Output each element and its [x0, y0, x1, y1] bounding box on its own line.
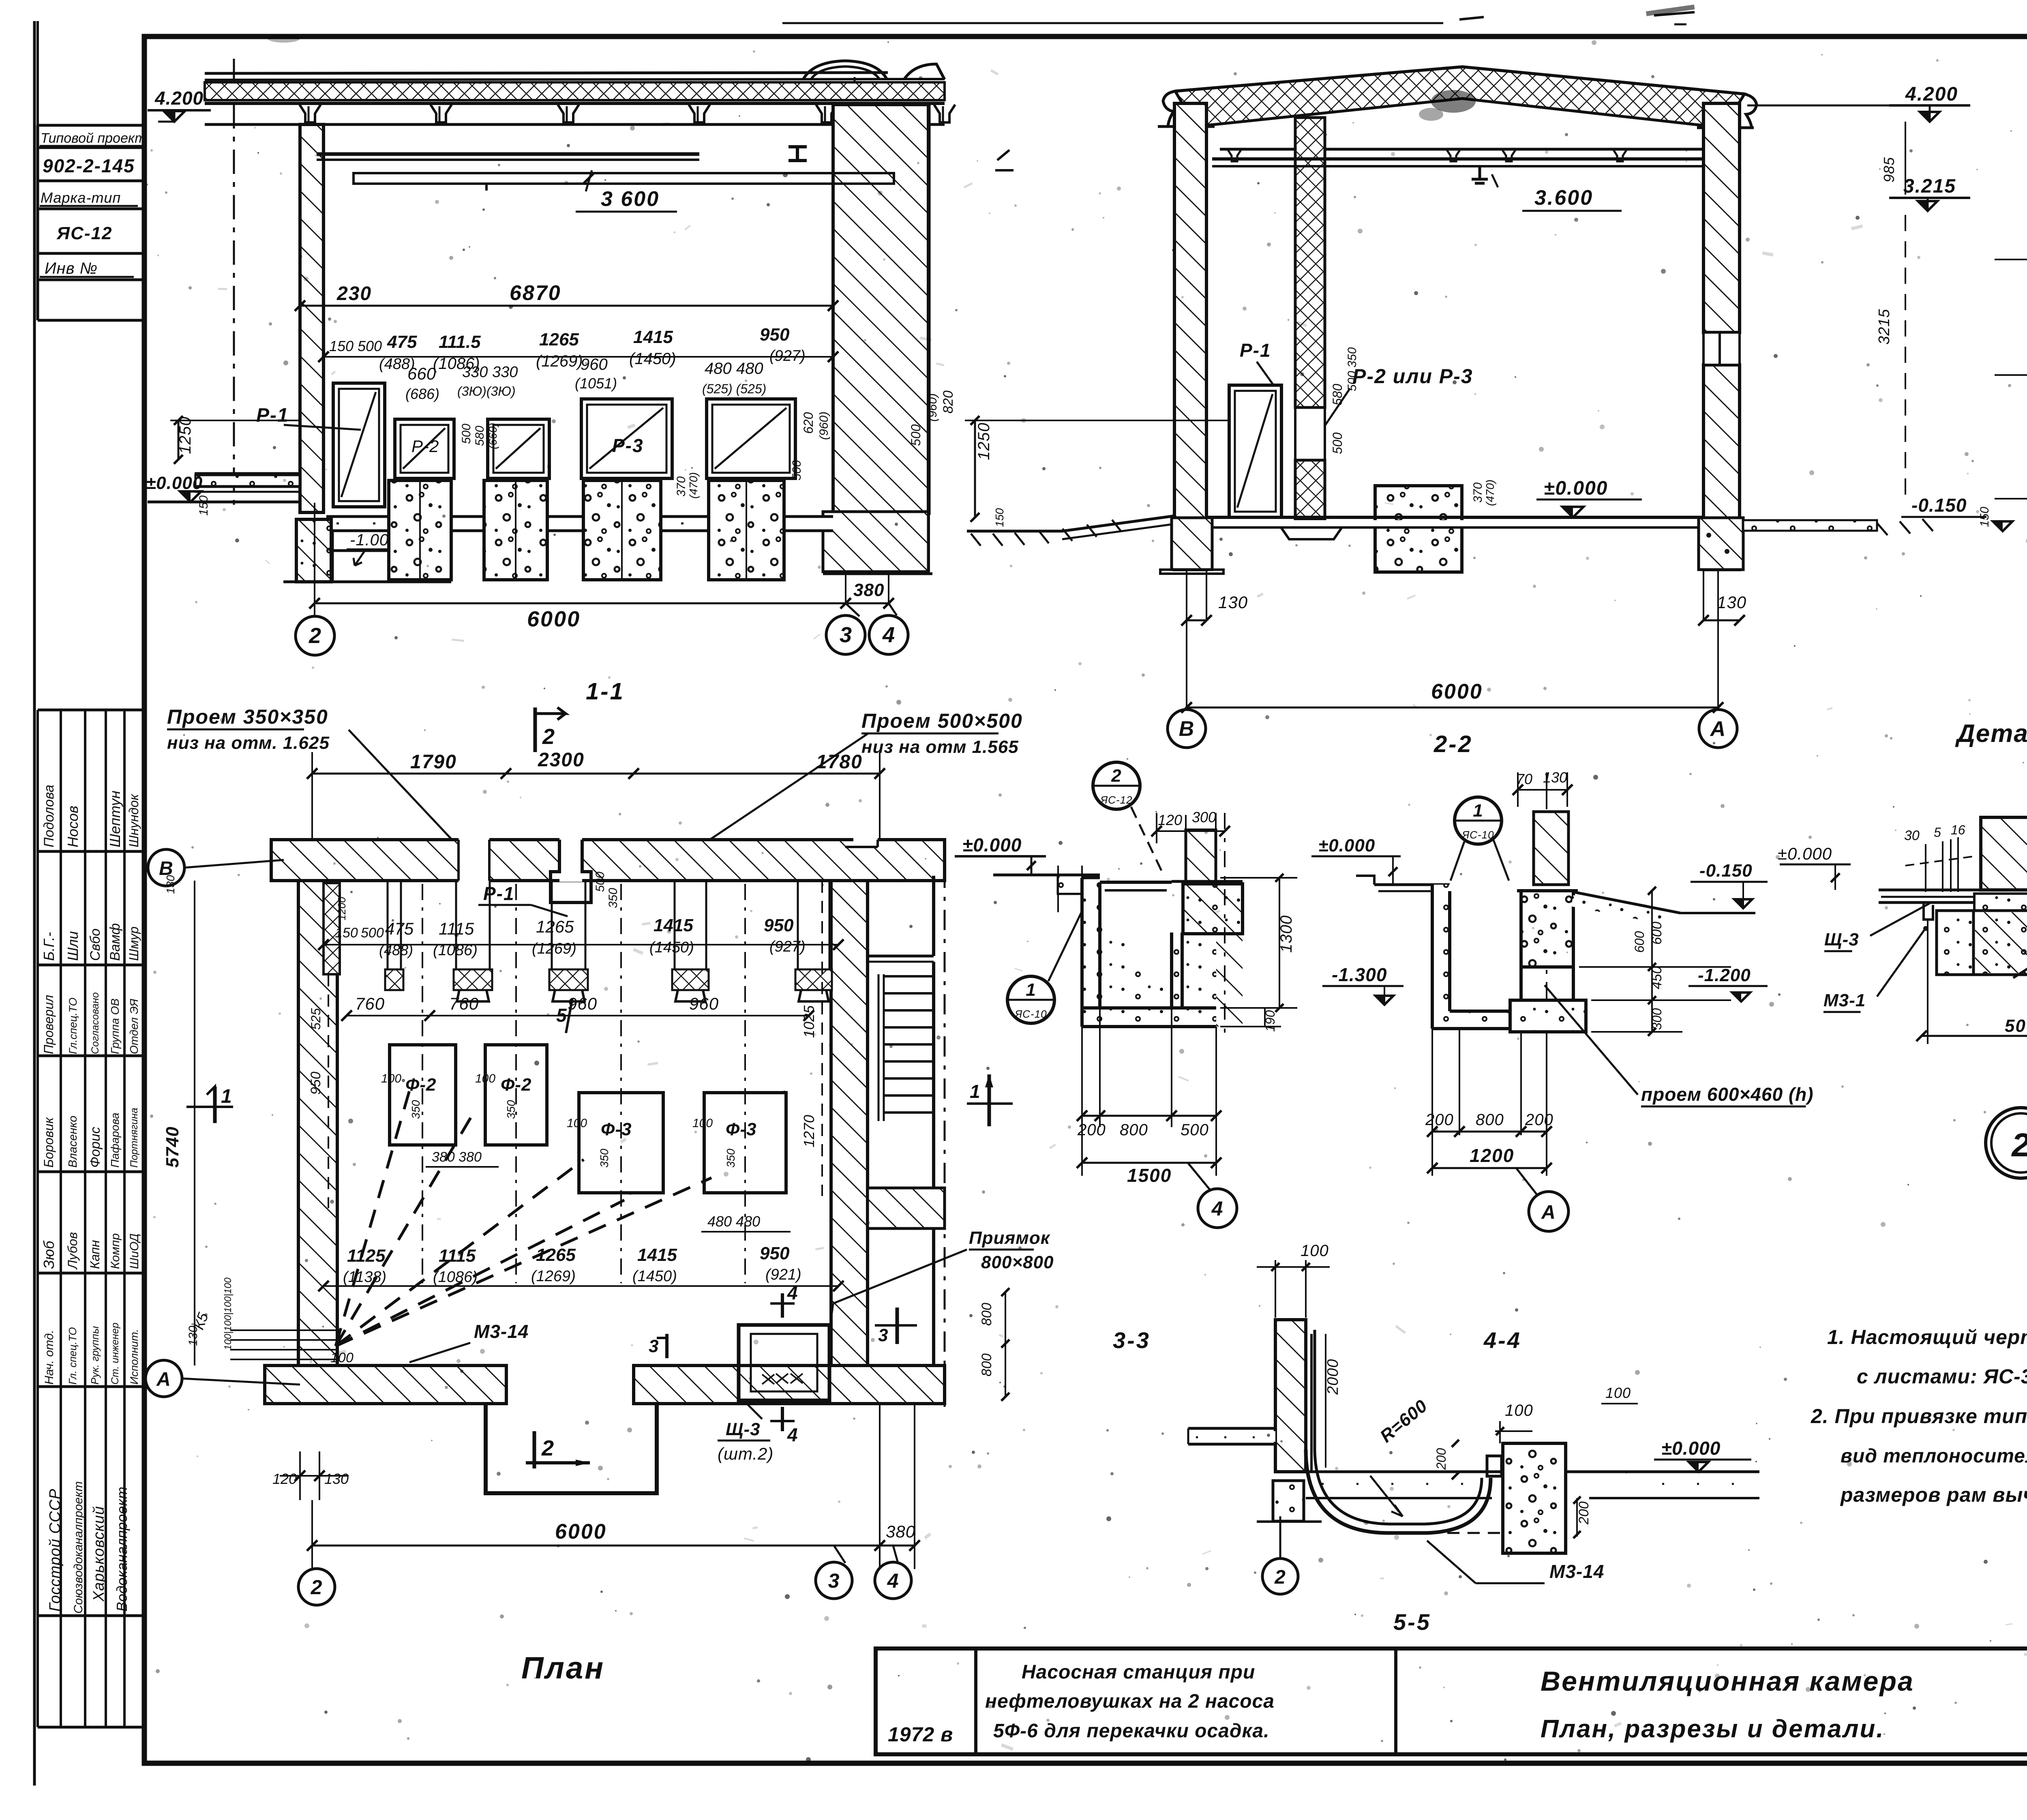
- svg-text:1780: 1780: [816, 751, 863, 773]
- svg-text:(488): (488): [379, 942, 413, 958]
- svg-text:230: 230: [336, 283, 372, 304]
- svg-text:±0.000: ±0.000: [1778, 844, 1832, 863]
- svg-text:±0.000: ±0.000: [146, 473, 203, 493]
- svg-text:525: 525: [309, 1008, 323, 1030]
- svg-text:130: 130: [324, 1471, 349, 1487]
- svg-text:100: 100: [1505, 1402, 1533, 1419]
- svg-text:Деталь крепления утеплителя: Деталь крепления утеплителя: [1955, 720, 2027, 748]
- svg-text:Исполнит.: Исполнит.: [128, 1329, 140, 1385]
- svg-text:300: 300: [1192, 809, 1216, 825]
- svg-text:Согласовано: Согласовано: [90, 992, 101, 1054]
- svg-text:4: 4: [1211, 1197, 1223, 1220]
- svg-text:500: 500: [361, 925, 384, 941]
- svg-text:ЯС-10: ЯС-10: [1461, 829, 1494, 841]
- svg-text:3215: 3215: [1876, 309, 1893, 345]
- svg-text:2: 2: [1274, 1567, 1286, 1588]
- svg-text:Форис: Форис: [88, 1127, 103, 1168]
- svg-text:1. Настоящий чертеж рассматрив: 1. Настоящий чертеж рассматривать совмес…: [1827, 1326, 2027, 1348]
- svg-text:150: 150: [1978, 507, 1991, 527]
- svg-text:Пафарова: Пафарова: [109, 1113, 121, 1168]
- svg-text:±0.000: ±0.000: [1318, 836, 1375, 855]
- svg-text:2: 2: [541, 1436, 554, 1460]
- svg-text:500: 500: [358, 338, 382, 354]
- svg-text:с листами: ЯС-3,4.: с листами: ЯС-3,4.: [1857, 1365, 2027, 1388]
- svg-text:600: 600: [1632, 931, 1647, 953]
- svg-text:Зюб: Зюб: [41, 1240, 57, 1269]
- svg-text:5: 5: [1934, 825, 1941, 840]
- svg-text:950: 950: [764, 915, 794, 935]
- svg-text:Р-2: Р-2: [411, 437, 439, 456]
- svg-text:580: 580: [473, 426, 486, 446]
- svg-text:Капн: Капн: [88, 1240, 102, 1269]
- svg-text:950: 950: [760, 1243, 790, 1263]
- svg-text:-0.150: -0.150: [1911, 495, 1967, 516]
- svg-text:Госстрой СССР: Госстрой СССР: [47, 1488, 64, 1612]
- svg-text:Ф-3: Ф-3: [601, 1119, 632, 1139]
- svg-text:200: 200: [1425, 1111, 1454, 1129]
- svg-text:1125: 1125: [347, 1246, 386, 1266]
- svg-text:Отдел ЭЯ: Отдел ЭЯ: [128, 999, 140, 1054]
- svg-text:(921): (921): [765, 1266, 801, 1283]
- svg-text:150: 150: [335, 925, 358, 941]
- svg-text:Компр: Компр: [109, 1233, 122, 1269]
- svg-text:Насосная станция при: Насосная станция при: [1022, 1661, 1255, 1683]
- svg-text:2300: 2300: [538, 749, 585, 771]
- svg-text:нефтеловушках на 2 насоса: нефтеловушках на 2 насоса: [985, 1691, 1275, 1712]
- svg-text:(470): (470): [1484, 480, 1496, 506]
- svg-text:1: 1: [1026, 980, 1036, 1000]
- svg-text:3: 3: [828, 1569, 840, 1592]
- svg-text:1200: 1200: [1470, 1145, 1514, 1166]
- svg-text:620: 620: [801, 412, 816, 434]
- svg-text:16: 16: [1951, 823, 1965, 837]
- svg-text:Подолова: Подолова: [41, 785, 57, 848]
- svg-text:1265: 1265: [536, 1245, 576, 1265]
- svg-text:4: 4: [882, 623, 895, 647]
- svg-text:Щ-3: Щ-3: [1824, 930, 1859, 950]
- svg-text:500: 500: [460, 424, 473, 444]
- svg-text:111.5: 111.5: [439, 332, 481, 352]
- svg-text:(1450): (1450): [649, 939, 694, 956]
- svg-text:Р-3: Р-3: [612, 435, 644, 456]
- svg-text:1: 1: [1473, 801, 1483, 821]
- svg-text:760: 760: [449, 994, 479, 1013]
- svg-text:Вентиляционная камера: Вентиляционная камера: [1541, 1666, 1914, 1697]
- svg-text:Проем 350×350: Проем 350×350: [167, 705, 328, 728]
- svg-text:(1269): (1269): [531, 1268, 576, 1285]
- svg-text:(1269): (1269): [532, 940, 576, 957]
- svg-text:820: 820: [941, 390, 956, 414]
- svg-text:Нач. отд.: Нач. отд.: [43, 1330, 56, 1385]
- svg-text:4: 4: [787, 1424, 798, 1445]
- svg-text:120: 120: [272, 1471, 297, 1487]
- svg-text:2-2: 2-2: [1433, 731, 1473, 757]
- svg-text:(686): (686): [405, 386, 439, 402]
- svg-text:330 330: 330 330: [462, 364, 518, 381]
- svg-text:3 600: 3 600: [601, 187, 660, 211]
- svg-text:(1269): (1269): [536, 352, 583, 370]
- svg-text:6000: 6000: [527, 607, 581, 631]
- svg-text:Группа ОВ: Группа ОВ: [109, 999, 121, 1054]
- svg-text:±0.000: ±0.000: [1661, 1438, 1721, 1459]
- svg-text:100: 100: [567, 1117, 587, 1130]
- svg-text:Ф-2: Ф-2: [501, 1075, 531, 1095]
- svg-text:70: 70: [1516, 771, 1532, 787]
- svg-text:(1086): (1086): [433, 1269, 478, 1286]
- svg-text:4: 4: [887, 1569, 899, 1592]
- svg-text:(927): (927): [769, 938, 806, 955]
- svg-text:А: А: [156, 1369, 171, 1390]
- svg-text:3.215: 3.215: [1903, 176, 1956, 197]
- svg-text:100: 100: [692, 1117, 713, 1130]
- svg-text:(1138): (1138): [343, 1269, 386, 1286]
- svg-text:Шмур: Шмур: [126, 926, 141, 961]
- svg-text:5-5: 5-5: [1393, 1609, 1431, 1635]
- svg-text:4.200: 4.200: [1905, 84, 1958, 105]
- svg-text:R=600: R=600: [1376, 1396, 1431, 1447]
- svg-text:5740: 5740: [163, 1126, 182, 1168]
- svg-text:ЯС-12: ЯС-12: [56, 223, 112, 243]
- svg-text:500: 500: [1181, 1121, 1209, 1139]
- svg-text:-0.150: -0.150: [1699, 861, 1753, 881]
- svg-text:2: 2: [2011, 1127, 2027, 1164]
- svg-text:±0.000: ±0.000: [962, 834, 1022, 855]
- svg-text:-1.300: -1.300: [1332, 964, 1387, 985]
- svg-text:660: 660: [407, 364, 436, 383]
- svg-text:1: 1: [221, 1086, 232, 1107]
- svg-text:Р-1: Р-1: [256, 405, 289, 426]
- svg-text:380 380: 380 380: [432, 1149, 482, 1165]
- svg-text:1415: 1415: [637, 1245, 677, 1265]
- svg-text:130: 130: [164, 875, 177, 894]
- svg-text:-1.00: -1.00: [350, 531, 389, 549]
- svg-text:Проем 500×500: Проем 500×500: [861, 710, 1023, 732]
- svg-text:1250: 1250: [975, 422, 993, 460]
- svg-text:Водоканалпроект: Водоканалпроект: [114, 1487, 130, 1612]
- svg-text:500: 500: [790, 460, 804, 480]
- svg-text:902-2-145: 902-2-145: [43, 155, 135, 176]
- svg-text:1270: 1270: [801, 1115, 817, 1147]
- svg-text:100: 100: [1605, 1385, 1631, 1401]
- svg-text:200: 200: [1434, 1448, 1448, 1470]
- svg-text:1972 в: 1972 в: [888, 1723, 953, 1746]
- svg-text:Шнундок: Шнундок: [126, 793, 141, 847]
- svg-text:проем 600×460 (h): проем 600×460 (h): [1641, 1084, 1814, 1105]
- svg-text:2: 2: [542, 725, 555, 749]
- svg-text:(шт.2): (шт.2): [718, 1444, 774, 1463]
- svg-text:2: 2: [311, 1576, 323, 1599]
- svg-text:(660): (660): [486, 423, 499, 449]
- svg-text:200: 200: [1525, 1111, 1553, 1129]
- svg-text:-1.200: -1.200: [1698, 965, 1751, 985]
- svg-text:Шли: Шли: [64, 931, 81, 961]
- svg-text:Харьковский: Харьковский: [90, 1506, 107, 1602]
- svg-text:М3-14: М3-14: [474, 1321, 529, 1342]
- svg-text:2000: 2000: [1324, 1359, 1341, 1395]
- svg-text:475: 475: [385, 919, 414, 938]
- svg-text:1: 1: [970, 1081, 980, 1102]
- svg-text:760: 760: [355, 994, 385, 1013]
- svg-text:Ф-3: Ф-3: [726, 1119, 756, 1139]
- svg-text:М3-14: М3-14: [1549, 1561, 1604, 1582]
- svg-text:2. При привязке типового проек: 2. При привязке типового проекта уточняе…: [1811, 1405, 2027, 1428]
- svg-text:Союзводоканалпроект: Союзводоканалпроект: [72, 1481, 85, 1614]
- svg-text:1790: 1790: [410, 751, 457, 773]
- svg-text:100: 100: [1301, 1242, 1329, 1260]
- svg-text:130: 130: [1218, 593, 1248, 612]
- svg-text:4: 4: [787, 1282, 798, 1303]
- svg-text:370: 370: [1471, 482, 1485, 503]
- svg-text:Р-1: Р-1: [483, 883, 515, 904]
- svg-text:475: 475: [387, 332, 417, 352]
- svg-text:6000: 6000: [1431, 680, 1483, 703]
- svg-text:500: 500: [2005, 1016, 2027, 1036]
- svg-text:1115: 1115: [439, 1246, 476, 1266]
- svg-text:Гл.спец.ТО: Гл.спец.ТО: [67, 998, 79, 1054]
- svg-text:2: 2: [309, 624, 321, 648]
- svg-text:500: 500: [1330, 432, 1345, 454]
- svg-text:950: 950: [760, 325, 790, 345]
- svg-text:Щ-3: Щ-3: [726, 1419, 761, 1439]
- svg-text:985: 985: [1881, 157, 1897, 182]
- svg-text:М3-1: М3-1: [1823, 990, 1866, 1010]
- svg-text:5Ф-6 для перекачки осадка.: 5Ф-6 для перекачки осадка.: [993, 1720, 1269, 1742]
- svg-text:350: 350: [598, 1149, 611, 1168]
- svg-text:800: 800: [1476, 1111, 1504, 1129]
- svg-text:Приямок: Приямок: [969, 1228, 1051, 1248]
- svg-text:В: В: [1179, 717, 1195, 741]
- svg-text:1265: 1265: [536, 917, 574, 936]
- svg-text:Боровик: Боровик: [41, 1117, 56, 1168]
- svg-text:1415: 1415: [654, 915, 693, 935]
- svg-text:350: 350: [505, 1100, 517, 1119]
- svg-text:вид теплоносителя (вода или: вид теплоносителя (вода или пар) и один …: [1841, 1445, 2027, 1467]
- svg-text:Вамф: Вамф: [107, 923, 123, 961]
- svg-text:Свбо: Свбо: [88, 928, 103, 961]
- svg-text:2: 2: [1111, 766, 1121, 786]
- svg-text:Инв №: Инв №: [45, 259, 98, 277]
- svg-text:(1051): (1051): [575, 375, 617, 392]
- svg-text:800: 800: [979, 1303, 994, 1326]
- svg-text:800: 800: [979, 1353, 994, 1376]
- svg-text:800×800: 800×800: [981, 1252, 1054, 1272]
- svg-text:1500: 1500: [1127, 1165, 1172, 1186]
- svg-text:3: 3: [840, 623, 852, 647]
- svg-text:(470): (470): [687, 472, 700, 499]
- svg-text:200: 200: [1077, 1121, 1106, 1139]
- svg-text:низ на отм 1.565: низ на отм 1.565: [861, 737, 1019, 757]
- svg-text:150: 150: [329, 338, 354, 354]
- svg-text:Р-1: Р-1: [1240, 340, 1271, 361]
- svg-text:Проверил: Проверил: [41, 995, 56, 1054]
- svg-text:5: 5: [556, 1005, 567, 1026]
- svg-text:План, разрезы и детали.: План, разрезы и детали.: [1541, 1715, 1885, 1743]
- svg-text:350: 350: [409, 1100, 422, 1119]
- svg-text:6000: 6000: [555, 1520, 607, 1543]
- svg-text:800: 800: [1120, 1121, 1148, 1139]
- svg-text:3-3: 3-3: [1113, 1327, 1151, 1353]
- svg-text:±0.000: ±0.000: [1544, 478, 1608, 499]
- svg-text:ЯС-10: ЯС-10: [1014, 1008, 1047, 1020]
- svg-text:6870: 6870: [510, 281, 561, 305]
- svg-text:150: 150: [197, 495, 210, 516]
- svg-text:350: 350: [724, 1149, 737, 1168]
- svg-text:размеров рам вычеркивается.: размеров рам вычеркивается.: [1840, 1483, 2027, 1506]
- svg-text:130: 130: [1717, 593, 1746, 612]
- svg-text:Рук. группы: Рук. группы: [89, 1326, 101, 1385]
- svg-text:350: 350: [606, 888, 620, 908]
- svg-text:960: 960: [581, 356, 608, 373]
- svg-text:Ст. инженер: Ст. инженер: [109, 1323, 121, 1385]
- svg-text:4.200: 4.200: [154, 88, 204, 109]
- svg-text:(960): (960): [926, 393, 939, 422]
- svg-text:200: 200: [1576, 1501, 1592, 1525]
- svg-text:низ на отм. 1.625: низ на отм. 1.625: [167, 733, 330, 753]
- svg-text:4-4: 4-4: [1483, 1327, 1521, 1353]
- svg-text:500: 500: [594, 872, 607, 892]
- svg-text:480 480: 480 480: [705, 360, 763, 377]
- svg-text:(1450): (1450): [632, 1268, 677, 1285]
- svg-text:370: 370: [675, 476, 688, 497]
- svg-text:ЯС-12: ЯС-12: [1099, 794, 1132, 806]
- svg-text:ШиОД: ШиОД: [128, 1233, 141, 1269]
- svg-text:100: 100: [475, 1072, 495, 1085]
- svg-text:150: 150: [993, 508, 1006, 527]
- svg-text:Носов: Носов: [64, 806, 81, 847]
- svg-text:Гл. спец.ТО: Гл. спец.ТО: [66, 1327, 79, 1385]
- svg-text:Типовой проект: Типовой проект: [41, 131, 146, 146]
- svg-text:(3Ю)(3Ю): (3Ю)(3Ю): [457, 384, 516, 399]
- svg-text:100: 100: [381, 1072, 401, 1085]
- svg-text:3: 3: [878, 1325, 888, 1345]
- svg-text:Портнягина: Портнягина: [129, 1108, 140, 1168]
- svg-text:960: 960: [689, 994, 719, 1013]
- svg-text:Б.Г.-: Б.Г.-: [41, 932, 57, 961]
- svg-text:План: План: [521, 1651, 605, 1685]
- svg-text:3: 3: [649, 1336, 658, 1356]
- svg-text:Марка-тип: Марка-тип: [41, 189, 121, 206]
- svg-text:(1450): (1450): [629, 350, 676, 368]
- svg-text:(525) (525): (525) (525): [702, 382, 766, 396]
- svg-text:Власенко: Власенко: [66, 1116, 79, 1168]
- svg-text:380: 380: [853, 580, 884, 600]
- svg-text:Шептун: Шептун: [107, 791, 123, 847]
- svg-text:3.600: 3.600: [1534, 186, 1593, 210]
- svg-text:480 480: 480 480: [707, 1213, 760, 1230]
- svg-text:(960): (960): [817, 412, 831, 440]
- svg-text:А: А: [1710, 717, 1726, 741]
- svg-text:950: 950: [308, 1072, 324, 1095]
- svg-text:1200: 1200: [336, 897, 348, 920]
- svg-text:500: 500: [909, 424, 923, 446]
- svg-text:(927): (927): [769, 347, 806, 364]
- svg-text:500 350: 500 350: [1346, 347, 1359, 391]
- svg-text:580: 580: [1330, 384, 1345, 405]
- svg-text:1-1: 1-1: [586, 678, 625, 705]
- svg-text:380: 380: [886, 1522, 915, 1541]
- svg-text:А: А: [1541, 1202, 1556, 1223]
- svg-text:Лубов: Лубов: [65, 1232, 80, 1270]
- svg-text:1415: 1415: [633, 327, 673, 347]
- svg-text:30: 30: [1904, 828, 1920, 843]
